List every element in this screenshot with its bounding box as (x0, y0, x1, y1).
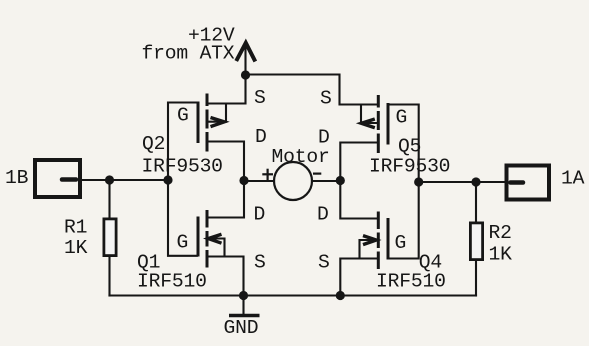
svg-text:1A: 1A (561, 168, 585, 190)
svg-text:Q2: Q2 (142, 133, 165, 155)
svg-text:S: S (318, 252, 330, 274)
svg-text:G: G (396, 107, 408, 129)
svg-text:GND: GND (224, 317, 259, 339)
svg-text:R1: R1 (64, 217, 87, 239)
svg-text:Motor: Motor (272, 146, 330, 168)
svg-text:D: D (317, 204, 329, 226)
svg-text:S: S (254, 87, 266, 109)
svg-text:IRF9530: IRF9530 (142, 156, 223, 178)
svg-text:G: G (177, 232, 189, 254)
svg-text:1K: 1K (489, 244, 513, 266)
svg-text:Q5: Q5 (398, 136, 421, 158)
svg-text:G: G (177, 105, 189, 127)
svg-text:1K: 1K (64, 237, 88, 259)
svg-text:IRF510: IRF510 (376, 271, 446, 293)
svg-text:S: S (254, 252, 266, 274)
svg-text:D: D (318, 127, 330, 149)
svg-text:IRF510: IRF510 (137, 271, 207, 293)
svg-text:R2: R2 (489, 222, 512, 244)
svg-text:1B: 1B (5, 167, 29, 189)
svg-text:from ATX: from ATX (142, 43, 235, 65)
svg-text:G: G (395, 232, 407, 254)
svg-text:IRF9530: IRF9530 (369, 156, 450, 178)
svg-text:D: D (255, 126, 267, 148)
svg-text:D: D (254, 204, 266, 226)
svg-text:S: S (320, 88, 332, 110)
